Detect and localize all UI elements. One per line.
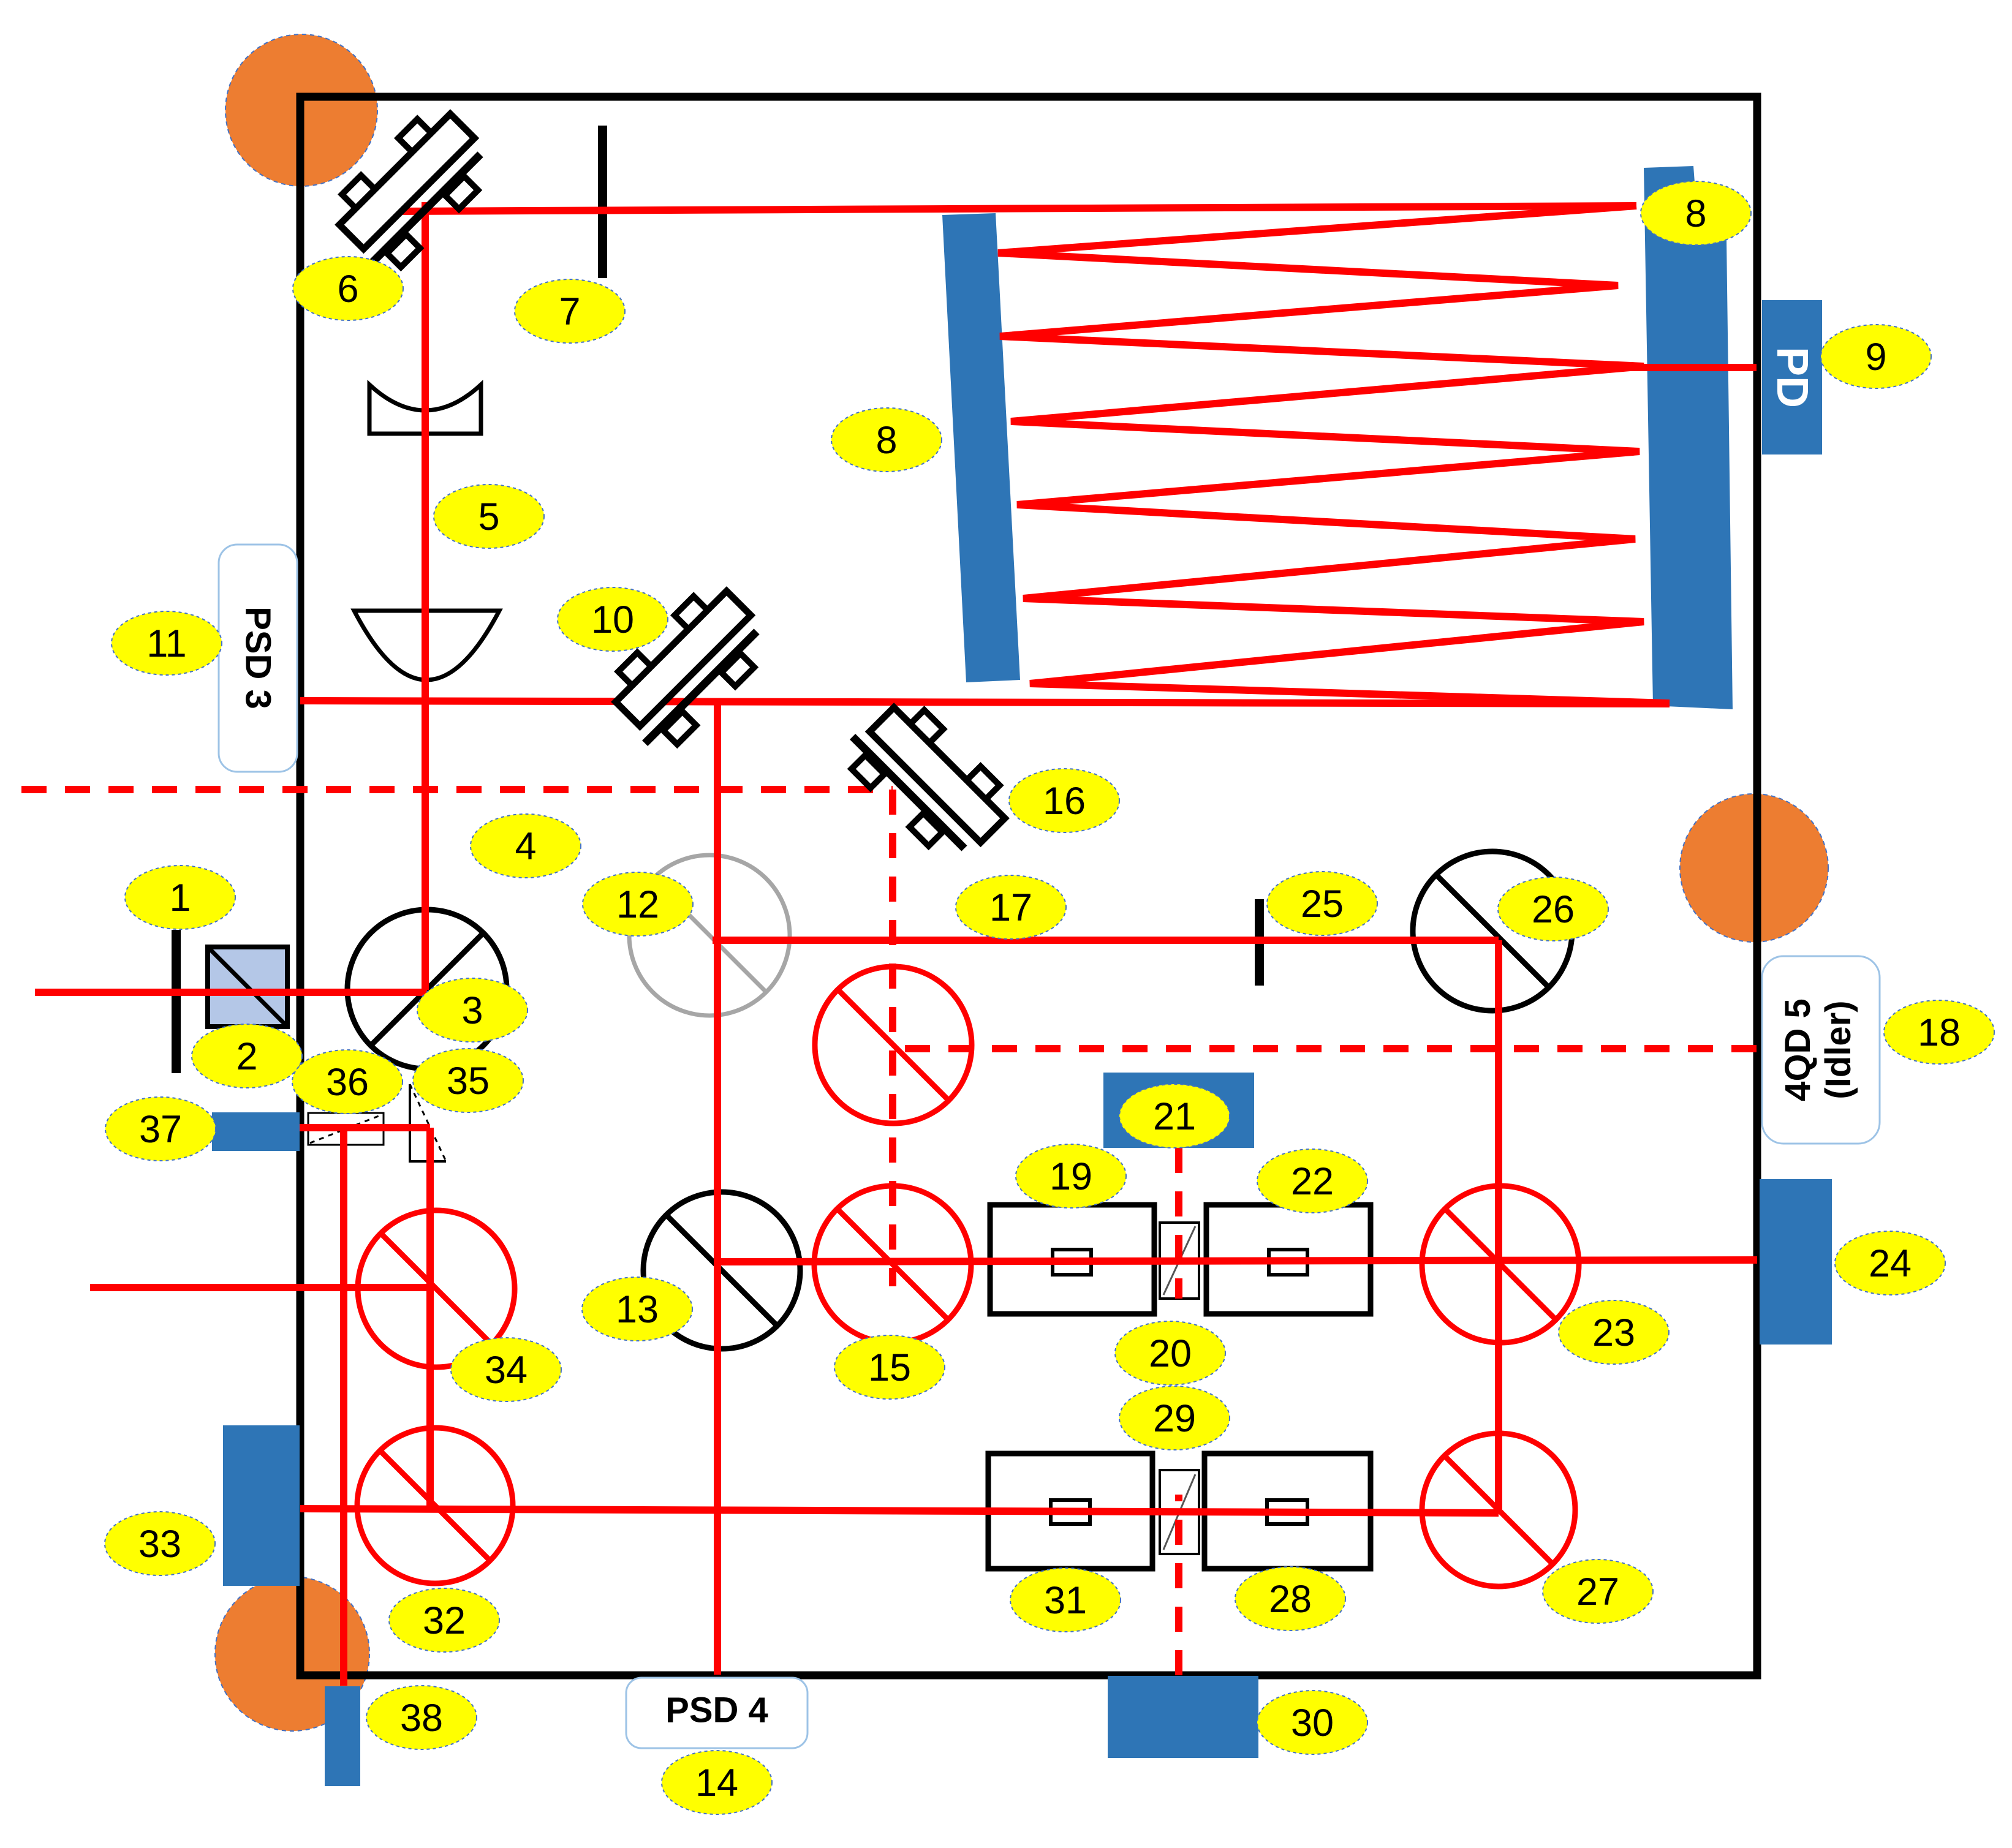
svg-text:2: 2 (236, 1035, 257, 1078)
svg-text:32: 32 (423, 1599, 466, 1642)
svg-text:(Idler): (Idler) (1818, 1000, 1858, 1099)
svg-text:1: 1 (169, 877, 191, 919)
svg-text:PSD 4: PSD 4 (665, 1691, 768, 1730)
svg-text:PD: PD (1768, 347, 1817, 408)
svg-text:PSD 3: PSD 3 (238, 606, 278, 709)
svg-text:30: 30 (1291, 1702, 1334, 1744)
svg-text:18: 18 (1918, 1011, 1961, 1054)
svg-text:34: 34 (485, 1349, 528, 1392)
svg-text:36: 36 (326, 1061, 369, 1104)
svg-text:14: 14 (695, 1762, 738, 1805)
svg-text:11: 11 (146, 622, 186, 665)
svg-text:23: 23 (1592, 1311, 1635, 1354)
svg-text:33: 33 (138, 1523, 181, 1566)
svg-text:37: 37 (139, 1108, 182, 1151)
svg-text:8: 8 (1685, 192, 1706, 235)
svg-text:24: 24 (1869, 1242, 1912, 1285)
svg-text:12: 12 (616, 883, 659, 926)
svg-text:31: 31 (1044, 1579, 1087, 1622)
svg-text:5: 5 (478, 496, 499, 538)
svg-text:35: 35 (447, 1060, 490, 1103)
svg-text:22: 22 (1291, 1160, 1334, 1203)
svg-text:17: 17 (989, 886, 1032, 929)
svg-text:4QD 5: 4QD 5 (1778, 998, 1818, 1101)
svg-text:9: 9 (1865, 336, 1886, 379)
svg-text:3: 3 (461, 989, 483, 1032)
svg-text:25: 25 (1301, 883, 1344, 926)
svg-text:10: 10 (591, 598, 634, 641)
svg-text:19: 19 (1049, 1155, 1092, 1198)
svg-text:13: 13 (616, 1288, 659, 1331)
svg-text:8: 8 (876, 419, 897, 462)
svg-text:20: 20 (1149, 1332, 1192, 1375)
svg-text:6: 6 (337, 268, 358, 311)
svg-text:38: 38 (400, 1697, 443, 1740)
svg-text:15: 15 (868, 1346, 911, 1389)
svg-text:21: 21 (1153, 1095, 1196, 1138)
svg-text:7: 7 (559, 290, 580, 333)
svg-text:16: 16 (1043, 780, 1086, 823)
svg-text:4: 4 (515, 825, 536, 868)
svg-text:27: 27 (1576, 1571, 1619, 1613)
svg-text:26: 26 (1532, 888, 1575, 931)
svg-text:29: 29 (1153, 1397, 1196, 1440)
svg-text:28: 28 (1269, 1578, 1312, 1621)
